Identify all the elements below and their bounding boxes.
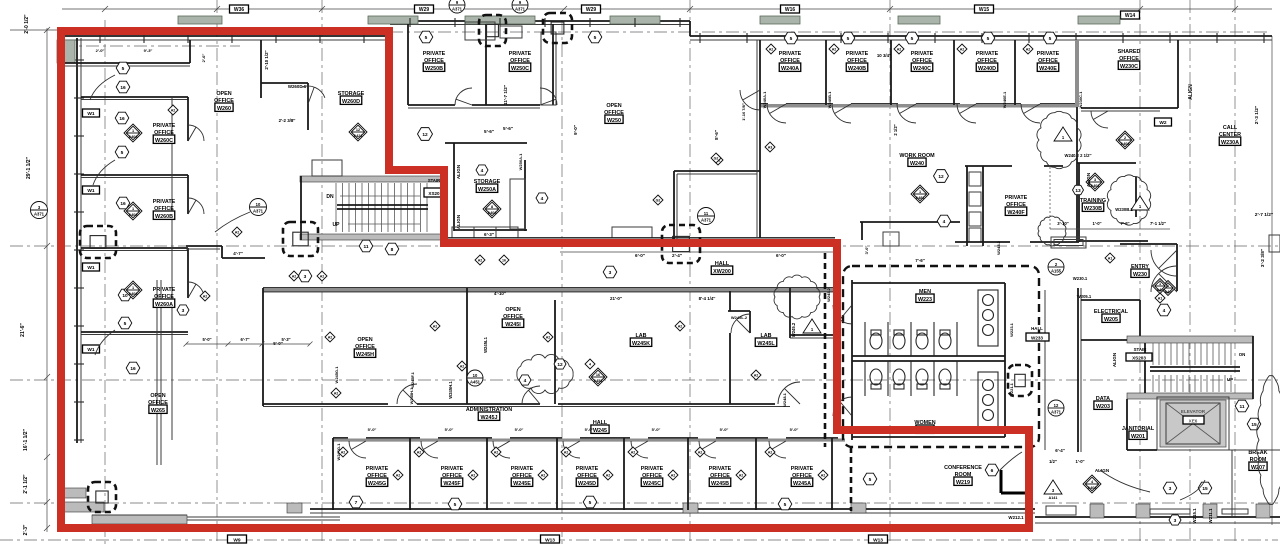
svg-text:3′-0″: 3′-0″ bbox=[864, 246, 869, 255]
svg-text:W230: W230 bbox=[1133, 272, 1147, 278]
svg-text:PRIVATE: PRIVATE bbox=[911, 51, 934, 57]
svg-text:5: 5 bbox=[589, 500, 592, 506]
svg-text:A371: A371 bbox=[253, 208, 264, 213]
tag hexagon 5 bbox=[784, 32, 798, 44]
svg-text:6′-0″: 6′-0″ bbox=[776, 253, 787, 258]
conference room wall stub bbox=[1001, 470, 1028, 493]
tag small diamond A2 bbox=[457, 361, 467, 371]
svg-text:A403: A403 bbox=[1120, 142, 1129, 146]
svg-text:A2: A2 bbox=[754, 374, 759, 378]
stair tag XS204 bbox=[424, 178, 445, 197]
bottom window tag W13 bbox=[541, 535, 560, 544]
svg-text:6′-0″: 6′-0″ bbox=[635, 253, 646, 258]
tag hexagon 10 bbox=[118, 289, 132, 301]
tag small diamond A2 bbox=[414, 447, 424, 457]
svg-text:2′-1 1/2″: 2′-1 1/2″ bbox=[23, 474, 29, 494]
svg-text:A401: A401 bbox=[1090, 184, 1099, 188]
svg-text:XW200: XW200 bbox=[713, 269, 731, 275]
svg-text:A1: A1 bbox=[1158, 297, 1163, 301]
svg-text:W245H: W245H bbox=[356, 352, 374, 358]
wall S of W250B/W250C bbox=[408, 105, 540, 108]
door bbox=[455, 88, 472, 105]
svg-text:A2: A2 bbox=[334, 392, 339, 396]
right dimension texts bbox=[1188, 36, 1274, 525]
svg-text:W260B: W260B bbox=[155, 214, 173, 220]
svg-text:OPEN: OPEN bbox=[216, 91, 231, 97]
door bbox=[778, 382, 800, 404]
door bbox=[188, 198, 204, 214]
stair XS203 tag bbox=[1126, 347, 1152, 361]
svg-text:A2: A2 bbox=[494, 451, 499, 455]
svg-text:15: 15 bbox=[1251, 422, 1257, 428]
svg-text:W13: W13 bbox=[873, 538, 883, 544]
tag hexagon 4 bbox=[476, 165, 488, 175]
svg-text:2′-7 1/2″: 2′-7 1/2″ bbox=[1255, 212, 1274, 218]
door bbox=[1021, 104, 1040, 123]
svg-text:W1: W1 bbox=[87, 188, 95, 194]
svg-text:21′-0″: 21′-0″ bbox=[610, 296, 623, 301]
leader arrow conference bbox=[1000, 452, 1022, 470]
door bbox=[832, 104, 851, 123]
door bbox=[188, 282, 204, 298]
svg-text:3: 3 bbox=[1169, 486, 1172, 492]
svg-text:11′-7 1/2″: 11′-7 1/2″ bbox=[503, 84, 508, 105]
tag circle 11/A371 bbox=[698, 208, 715, 225]
tag diamond 12/A421 bbox=[349, 123, 367, 141]
tag hexagon 5 bbox=[1043, 32, 1057, 44]
dim texts above bottom offices bbox=[368, 427, 799, 432]
svg-text:16: 16 bbox=[130, 366, 136, 372]
svg-text:A371: A371 bbox=[701, 217, 712, 222]
svg-text:W15: W15 bbox=[979, 7, 990, 13]
window tag W1 bbox=[83, 186, 100, 194]
storage W260D walls bbox=[261, 40, 392, 170]
svg-text:PRIVATE: PRIVATE bbox=[1037, 51, 1060, 57]
extra dimension texts bbox=[96, 48, 746, 140]
svg-text:ALIGN: ALIGN bbox=[1112, 352, 1117, 367]
svg-text:A2: A2 bbox=[897, 48, 902, 52]
svg-text:2′-4″: 2′-4″ bbox=[672, 253, 683, 258]
room label W245 bbox=[591, 420, 609, 434]
tag small diamond A2 bbox=[491, 447, 501, 457]
door bbox=[302, 86, 325, 104]
svg-text:CONFERENCE: CONFERENCE bbox=[944, 465, 982, 471]
tag small diamond A2 bbox=[695, 447, 705, 457]
south-west stepped wall hatches bbox=[62, 488, 340, 524]
svg-text:W245I: W245I bbox=[505, 322, 521, 328]
svg-text:W1: W1 bbox=[87, 111, 95, 117]
door bbox=[397, 384, 417, 404]
tag hexagon 6 bbox=[985, 464, 999, 476]
room label W207 bbox=[1248, 450, 1267, 471]
tag hexagon 3 bbox=[603, 266, 617, 278]
tag diamond 1/A403 bbox=[124, 202, 142, 220]
tag small diamond A2 bbox=[561, 447, 571, 457]
bold dashed opening marker bbox=[662, 225, 700, 263]
tag small diamond A2 bbox=[1023, 44, 1033, 54]
tag small diamond G2 bbox=[713, 155, 723, 165]
toilet partitions women bbox=[865, 361, 957, 396]
svg-text:PRIVATE: PRIVATE bbox=[153, 123, 176, 129]
svg-text:PRIVATE: PRIVATE bbox=[791, 466, 814, 472]
svg-text:PRIVATE: PRIVATE bbox=[709, 466, 732, 472]
revision cloud bbox=[517, 354, 573, 393]
svg-text:HALL: HALL bbox=[1031, 326, 1043, 331]
wall S of W240A-E offices bbox=[760, 104, 1077, 108]
svg-text:2′-6″: 2′-6″ bbox=[201, 54, 206, 63]
svg-text:A403: A403 bbox=[128, 292, 137, 296]
svg-text:10: 10 bbox=[256, 202, 261, 207]
svg-text:ALIGN: ALIGN bbox=[1188, 84, 1194, 100]
tag diamond 4/A403 bbox=[1083, 475, 1101, 493]
room label W245L bbox=[755, 333, 777, 347]
tag small diamond A2 bbox=[603, 470, 613, 480]
svg-text:11: 11 bbox=[1239, 404, 1244, 410]
vanity men bbox=[978, 290, 998, 346]
svg-text:W223.1: W223.1 bbox=[1009, 322, 1014, 337]
alteration dashed boundary around restrooms bbox=[843, 266, 1039, 447]
window tag W1 bbox=[83, 109, 100, 117]
svg-text:A2: A2 bbox=[478, 259, 483, 263]
svg-text:OPEN: OPEN bbox=[357, 337, 372, 343]
north wall window mullions bbox=[100, 18, 1264, 43]
svg-text:A2: A2 bbox=[671, 474, 676, 478]
tag diamond 1/A403 bbox=[124, 281, 142, 299]
room label W245C bbox=[641, 466, 664, 487]
room label W250A bbox=[474, 179, 501, 193]
svg-text:STAIR: STAIR bbox=[428, 178, 440, 183]
svg-text:W245G: W245G bbox=[368, 481, 386, 487]
window tag W14 bbox=[1121, 11, 1140, 19]
svg-text:SHARED: SHARED bbox=[1118, 49, 1141, 55]
svg-text:W13: W13 bbox=[545, 538, 555, 544]
tag small diamond A1 bbox=[1155, 293, 1165, 303]
svg-text:A2: A2 bbox=[1026, 48, 1031, 52]
room label W240E bbox=[1037, 51, 1060, 72]
tag hexagon 15 bbox=[1247, 418, 1261, 430]
svg-text:A2: A2 bbox=[460, 365, 465, 369]
svg-text:12: 12 bbox=[1054, 403, 1059, 408]
room label W245E bbox=[511, 466, 534, 487]
svg-text:2′-0 1/2″: 2′-0 1/2″ bbox=[24, 14, 30, 34]
svg-text:UP: UP bbox=[1227, 377, 1233, 382]
svg-text:11: 11 bbox=[704, 211, 709, 216]
interior partition line W265 bbox=[157, 280, 161, 465]
svg-text:W211.1: W211.1 bbox=[1208, 508, 1213, 523]
svg-text:W240F: W240F bbox=[1007, 210, 1025, 216]
bold dashed opening marker bbox=[80, 226, 116, 258]
svg-text:STAIR: STAIR bbox=[1134, 347, 1148, 352]
svg-text:W245H.1: W245H.1 bbox=[409, 387, 414, 404]
right zone walls (W240F / training) bbox=[955, 163, 1148, 242]
corridor wall E of west offices bbox=[172, 97, 188, 440]
svg-text:W260D.1: W260D.1 bbox=[288, 84, 307, 89]
svg-text:5′-6″: 5′-6″ bbox=[503, 126, 514, 131]
svg-text:W245: W245 bbox=[593, 428, 607, 434]
tag diamond 3/A401 bbox=[1086, 173, 1104, 191]
svg-text:A2: A2 bbox=[341, 451, 346, 455]
svg-text:W29: W29 bbox=[419, 7, 430, 13]
svg-text:W240B.1: W240B.1 bbox=[827, 91, 832, 108]
svg-text:PRIVATE: PRIVATE bbox=[846, 51, 869, 57]
door bbox=[740, 90, 760, 110]
window tag W36 bbox=[230, 5, 249, 13]
svg-text:5′-0″: 5′-0″ bbox=[585, 427, 594, 432]
tag hexagon 5 bbox=[448, 498, 462, 510]
svg-text:5: 5 bbox=[121, 150, 124, 156]
svg-text:W230A: W230A bbox=[1221, 140, 1239, 146]
svg-text:W240E: W240E bbox=[1039, 66, 1057, 72]
room label W240A bbox=[779, 51, 802, 72]
tag hexagon 11 bbox=[359, 240, 373, 252]
top dimension line bbox=[62, 6, 1272, 12]
svg-text:W245L: W245L bbox=[757, 341, 775, 347]
central block south wall bbox=[263, 404, 790, 407]
svg-text:A2: A2 bbox=[396, 474, 401, 478]
entry walls bbox=[1120, 235, 1280, 291]
central block walls bbox=[263, 288, 838, 406]
svg-text:W250: W250 bbox=[607, 118, 621, 124]
svg-text:W245A: W245A bbox=[793, 481, 811, 487]
room label W219 bbox=[944, 465, 982, 486]
svg-text:5: 5 bbox=[124, 321, 127, 327]
svg-text:1: 1 bbox=[1159, 282, 1161, 286]
tag hexagon 16 bbox=[126, 362, 140, 374]
door bbox=[833, 305, 852, 324]
wall S of shared office W230C bbox=[1081, 108, 1178, 111]
room label W245A bbox=[791, 466, 814, 487]
tag triangle 1 bbox=[1131, 196, 1149, 210]
tag small diamond A2 bbox=[829, 44, 839, 54]
svg-text:W223: W223 bbox=[918, 297, 932, 303]
svg-text:4: 4 bbox=[589, 363, 591, 367]
office corner diamonds bbox=[0, 0, 1, 1]
svg-text:A155: A155 bbox=[1051, 268, 1062, 273]
room label W250 bbox=[604, 103, 624, 124]
svg-text:OPEN: OPEN bbox=[606, 103, 621, 109]
svg-text:5′-6″: 5′-6″ bbox=[484, 129, 495, 134]
tag small diamond A2 bbox=[168, 105, 178, 115]
tag hexagon 5 bbox=[118, 317, 132, 329]
storage W250A walls bbox=[445, 143, 527, 231]
svg-text:W230C: W230C bbox=[1120, 64, 1138, 70]
svg-text:A1: A1 bbox=[1108, 257, 1113, 261]
svg-text:5′-0″: 5′-0″ bbox=[515, 427, 524, 432]
tag small diamond A2 bbox=[430, 321, 440, 331]
room label W245H bbox=[354, 337, 376, 358]
svg-text:4′-7″: 4′-7″ bbox=[233, 251, 243, 256]
svg-text:PRIVATE: PRIVATE bbox=[641, 466, 664, 472]
dashed boundary west segment bbox=[824, 253, 827, 447]
tag hexagon 12 bbox=[554, 359, 566, 369]
tag triangle 3 bbox=[1044, 480, 1062, 500]
svg-text:W205: W205 bbox=[1104, 317, 1118, 323]
tag diamond 1/A40 bbox=[1161, 281, 1176, 296]
svg-text:15: 15 bbox=[1202, 486, 1208, 492]
bottom office partitions bbox=[333, 438, 832, 510]
svg-text:A2: A2 bbox=[292, 275, 297, 279]
tag hexagon 5 bbox=[981, 32, 995, 44]
window tag W15 bbox=[975, 5, 994, 13]
room label W245D bbox=[576, 466, 599, 487]
svg-text:12: 12 bbox=[422, 132, 428, 138]
svg-text:PRIVATE: PRIVATE bbox=[423, 51, 446, 57]
svg-text:5: 5 bbox=[911, 36, 914, 42]
svg-text:16: 16 bbox=[502, 259, 506, 263]
tag circle 12/A371 bbox=[1048, 400, 1064, 416]
svg-text:A403: A403 bbox=[128, 135, 137, 139]
room label W250C bbox=[509, 51, 532, 72]
room label W201 bbox=[1122, 426, 1155, 440]
stair XS203 treads upper bbox=[1150, 343, 1240, 371]
vanity women bbox=[978, 372, 998, 428]
svg-text:3′-10″: 3′-10″ bbox=[1057, 221, 1068, 226]
leader arrows bottom right bbox=[1100, 470, 1150, 492]
door bbox=[957, 104, 976, 123]
tag small diamond A2 bbox=[331, 388, 341, 398]
revision cloud bbox=[1257, 376, 1280, 505]
svg-text:A2: A2 bbox=[328, 336, 333, 340]
svg-text:PRIVATE: PRIVATE bbox=[441, 466, 464, 472]
room label W230A bbox=[1219, 125, 1241, 146]
svg-text:8: 8 bbox=[391, 247, 394, 253]
svg-text:PRIVATE: PRIVATE bbox=[153, 287, 176, 293]
tag small diamond A2 bbox=[668, 470, 678, 480]
svg-text:W245L.2: W245L.2 bbox=[731, 315, 748, 320]
tag hexagon 7 bbox=[349, 496, 363, 508]
tag small diamond A2 bbox=[475, 255, 485, 265]
svg-text:5: 5 bbox=[454, 502, 457, 508]
desks N of hall bbox=[452, 227, 652, 238]
tag hexagon 3 bbox=[1169, 515, 1181, 525]
svg-text:W250C: W250C bbox=[511, 66, 529, 72]
tag hexagon 5 bbox=[905, 32, 919, 44]
door bbox=[421, 441, 438, 458]
window tag W29 bbox=[582, 5, 601, 13]
svg-text:5′-3″: 5′-3″ bbox=[281, 337, 290, 342]
svg-text:W215.1: W215.1 bbox=[1192, 508, 1197, 524]
svg-text:A2: A2 bbox=[541, 474, 546, 478]
svg-text:8′-6″: 8′-6″ bbox=[714, 129, 719, 140]
tag small diamond A2 bbox=[325, 332, 335, 342]
svg-text:A2: A2 bbox=[433, 325, 438, 329]
svg-text:UP: UP bbox=[333, 222, 341, 228]
svg-text:6′-3″: 6′-3″ bbox=[484, 232, 495, 237]
svg-text:A2: A2 bbox=[678, 325, 683, 329]
door bbox=[731, 314, 750, 333]
dashed boundary continuation down bbox=[850, 447, 853, 511]
door bbox=[833, 397, 852, 416]
svg-text:W245B: W245B bbox=[711, 481, 729, 487]
bold dashed opening marker bbox=[1008, 365, 1032, 396]
svg-text:16: 16 bbox=[596, 373, 600, 377]
hall W233 tag bbox=[1026, 326, 1049, 341]
svg-text:W230B: W230B bbox=[1084, 206, 1102, 212]
svg-text:W205.1: W205.1 bbox=[1077, 294, 1092, 299]
tag small diamond A2 bbox=[751, 370, 761, 380]
revision cloud bbox=[1037, 111, 1081, 168]
svg-text:8: 8 bbox=[491, 205, 493, 209]
svg-text:5: 5 bbox=[425, 35, 428, 41]
door bbox=[1091, 111, 1108, 128]
svg-text:A403: A403 bbox=[487, 211, 496, 215]
hall dimension texts bbox=[560, 252, 835, 258]
svg-text:16: 16 bbox=[119, 116, 125, 122]
tag hexagon 4 bbox=[536, 193, 548, 203]
svg-text:2′-2 3/8″: 2′-2 3/8″ bbox=[279, 118, 297, 123]
red alteration boundary polygon bbox=[61, 31, 1029, 528]
room label W240D bbox=[976, 51, 999, 72]
cabinets W250 left bbox=[541, 32, 556, 105]
room label W223 bbox=[916, 289, 934, 303]
tag small diamond A2 bbox=[338, 447, 348, 457]
window tag W29 bbox=[415, 5, 434, 13]
south-east wall bbox=[1035, 517, 1280, 523]
door bbox=[767, 104, 786, 123]
svg-text:A2: A2 bbox=[739, 474, 744, 478]
toilet fixtures closet bbox=[967, 166, 983, 246]
window tag W2 bbox=[1155, 118, 1172, 126]
svg-text:5′-0″: 5′-0″ bbox=[202, 337, 211, 342]
tag triangle 1 bbox=[1054, 127, 1072, 141]
room label W260A bbox=[153, 287, 176, 308]
tag small diamond A2 bbox=[393, 470, 403, 480]
svg-text:ALIGN: ALIGN bbox=[456, 164, 461, 179]
svg-text:A3: A3 bbox=[768, 146, 773, 150]
svg-text:W245E: W245E bbox=[513, 481, 531, 487]
svg-text:W230.1: W230.1 bbox=[1073, 276, 1088, 281]
svg-text:1: 1 bbox=[132, 286, 134, 290]
tag circle 9/A371 bbox=[512, 0, 528, 13]
svg-text:3′-2 3/8″: 3′-2 3/8″ bbox=[1260, 248, 1266, 267]
tag hexagon 5 bbox=[778, 498, 792, 510]
dim line west of central block bbox=[184, 337, 313, 347]
svg-text:A2: A2 bbox=[564, 451, 569, 455]
svg-text:6′-7″: 6′-7″ bbox=[240, 337, 249, 342]
elevator label bbox=[1181, 409, 1206, 424]
room label W245G bbox=[366, 466, 389, 487]
svg-text:W245K: W245K bbox=[632, 341, 650, 347]
svg-text:A2: A2 bbox=[768, 451, 773, 455]
tag hexagon 5 bbox=[116, 62, 130, 74]
room label W245J bbox=[466, 407, 512, 421]
svg-text:XS20: XS20 bbox=[428, 191, 440, 196]
room label W245K bbox=[630, 333, 652, 347]
svg-text:W260D: W260D bbox=[342, 99, 360, 105]
elevator shaft bbox=[1157, 397, 1229, 450]
work room walls bbox=[860, 222, 960, 240]
svg-text:16: 16 bbox=[120, 85, 126, 91]
room label W260D bbox=[338, 91, 365, 105]
hall north wall bbox=[445, 238, 835, 241]
svg-text:W260C: W260C bbox=[155, 138, 173, 144]
tag small diamond 16 bbox=[499, 255, 509, 265]
svg-text:W9: W9 bbox=[233, 538, 241, 544]
tag small diamond G2 bbox=[653, 195, 663, 205]
room label W245B bbox=[709, 466, 732, 487]
svg-text:9′-3″: 9′-3″ bbox=[144, 48, 153, 53]
svg-text:W245C: W245C bbox=[643, 481, 661, 487]
svg-text:3: 3 bbox=[1094, 178, 1096, 182]
door bbox=[631, 441, 648, 458]
room label W240B bbox=[846, 51, 869, 72]
svg-text:W265: W265 bbox=[151, 408, 165, 414]
room label W203 bbox=[1094, 396, 1112, 410]
svg-text:2 1/2″: 2 1/2″ bbox=[893, 124, 898, 135]
svg-text:G2: G2 bbox=[656, 199, 661, 203]
svg-text:W240A.1: W240A.1 bbox=[762, 91, 767, 108]
window tag W1 bbox=[83, 345, 100, 353]
